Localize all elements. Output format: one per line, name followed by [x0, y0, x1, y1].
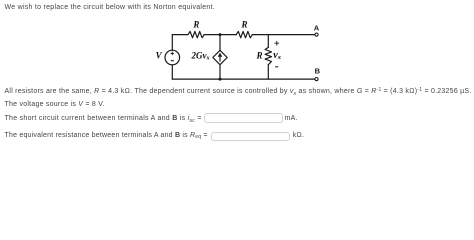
svg-text:B: B — [315, 66, 321, 75]
terminal A open circle — [315, 33, 318, 36]
intro text line — [5, 4, 216, 12]
wire dependent source upper lead — [219, 35, 221, 51]
question 2 — [5, 132, 208, 140]
input box Req — [211, 132, 290, 142]
terminal B open circle — [315, 78, 318, 81]
plus sign inside source — [171, 52, 175, 56]
wire vertical resistor lower lead — [267, 65, 269, 79]
current source arrow (inside diamond, pointing up) — [218, 53, 223, 62]
wire vertical resistor upper lead — [267, 35, 269, 48]
svg-text:R: R — [192, 20, 199, 30]
svg-text:vx: vx — [273, 50, 281, 61]
minus sign for vx — [275, 66, 278, 68]
wire top middle segment — [204, 34, 236, 36]
resistor R2 (top-right horizontal) — [236, 31, 252, 37]
wire top right segment to terminal A — [252, 34, 315, 36]
plus sign for vx — [275, 41, 280, 46]
svg-text:2Gvx: 2Gvx — [191, 50, 210, 61]
question 1 — [5, 115, 202, 123]
junction dot top node — [219, 33, 222, 36]
resistor R3 (vertical) — [265, 47, 271, 64]
voltage source V1 circle — [165, 50, 180, 65]
wire left vertical upper (source to top wire) — [171, 35, 173, 51]
wire left vertical lower (source to bottom wire) — [171, 65, 173, 79]
wire bottom rail — [172, 78, 315, 80]
svg-text:R: R — [256, 50, 263, 60]
circuit schematic SVG — [0, 0, 474, 145]
dependent current source U1 diamond — [213, 50, 227, 64]
svg-text:V: V — [156, 50, 163, 60]
svg-text:A: A — [314, 24, 320, 33]
wire dependent source lower lead — [219, 65, 221, 79]
resistor R1 (top-left horizontal) — [188, 31, 204, 37]
input box isc — [204, 113, 283, 123]
wire top left segment — [172, 34, 188, 36]
junction dot bottom node — [219, 78, 222, 81]
svg-text:R: R — [241, 20, 248, 30]
paragraph: resistor values — [5, 88, 472, 96]
minus sign inside source — [171, 60, 174, 62]
